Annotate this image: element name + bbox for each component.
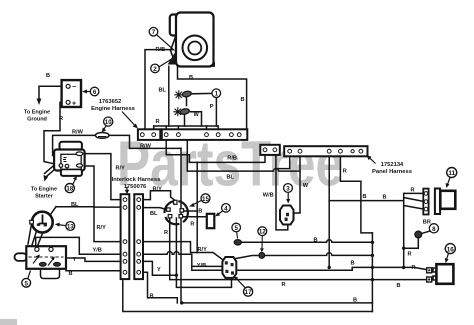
wire pto pin2 stub (275, 153, 277, 168)
interlock left strip (121, 194, 130, 279)
junction dot 329/267 (328, 266, 331, 269)
wire x403 down to R line (403, 201, 405, 268)
svg-text:R: R (411, 188, 415, 194)
engine left edge (171, 36, 177, 65)
engine harness small strip (138, 129, 160, 140)
svg-text:15: 15 (202, 196, 209, 203)
svg-text:BL: BL (150, 211, 158, 217)
svg-text:R: R (156, 119, 160, 125)
spark plug 1 boot (182, 90, 192, 97)
item 6 arrow (86, 91, 91, 93)
wire gauge BL horizontal (56, 206, 94, 208)
ground arrowhead (37, 99, 42, 106)
item 12 callout circle (258, 227, 267, 236)
wire B regulator to ground (39, 86, 66, 99)
svg-text:B: B (198, 209, 202, 215)
svg-text:To Engine: To Engine (24, 110, 50, 116)
svg-text:B: B (363, 194, 367, 200)
svg-text:16: 16 (447, 246, 455, 253)
engine flywheel inner (188, 42, 201, 55)
svg-text:6: 6 (93, 89, 97, 96)
engine harness arrow (122, 112, 135, 126)
regulator minus terminal (66, 84, 70, 88)
item 4 callout circle (222, 204, 231, 213)
svg-text:R: R (282, 282, 286, 288)
wire Y/B interlock pin4R to octagon left (143, 252, 236, 271)
svg-text:8: 8 (432, 226, 436, 233)
svg-text:B: B (150, 294, 154, 300)
svg-text:+: + (72, 100, 76, 107)
wire B key switch right pin (184, 210, 198, 212)
item 13 callout circle (66, 222, 75, 231)
pto small strip pins (263, 148, 277, 152)
panel harness strip (284, 146, 367, 156)
wire B interlock pin6R down and right (143, 272, 177, 303)
svg-text:R/B: R/B (156, 47, 166, 53)
svg-text:B: B (241, 97, 245, 103)
junction dot 372/255 (371, 254, 374, 257)
solenoid terminal 3 oval (77, 164, 83, 167)
pto small strip (260, 145, 280, 155)
key switch left pin (167, 208, 171, 211)
wire spark plug1 to item1 (191, 92, 212, 94)
engine bottom-right foot (212, 63, 215, 66)
wire vertical from R/B line down through switch area (196, 162, 198, 252)
item 3 callout circle (284, 184, 293, 193)
solenoid oval terminal (76, 152, 83, 156)
svg-text:R: R (164, 230, 168, 236)
wire R/B from engine strip pin1 to small strip (166, 140, 265, 162)
svg-text:1763652: 1763652 (99, 99, 122, 105)
item 17 callout circle (244, 287, 253, 296)
item 5b pointer (237, 232, 238, 239)
wire bus above engine strip (154, 125, 219, 127)
svg-text:13: 13 (67, 224, 74, 231)
svg-text:BR: BR (423, 220, 431, 226)
svg-text:W: W (303, 183, 309, 189)
comp3 pins (286, 213, 289, 216)
solenoid terminal 2 (65, 164, 69, 168)
svg-text:−: − (72, 84, 76, 91)
item 8 small circle component (415, 231, 422, 238)
small circle on item12 line (259, 253, 265, 259)
svg-text:Interlock Harness: Interlock Harness (112, 177, 161, 183)
item 2 pointer (159, 59, 172, 67)
item 16 arrow (447, 253, 449, 259)
switch5 plunger (15, 253, 28, 261)
svg-text:Panel Harness: Panel Harness (372, 169, 412, 175)
spark plug 2 boot (180, 108, 190, 115)
solenoid bottom cap (61, 169, 82, 176)
engine harness main strip (162, 129, 248, 140)
solenoid inner box (61, 154, 81, 169)
item 10 arrow (104, 126, 107, 130)
svg-text:To Engine: To Engine (31, 187, 57, 193)
item 17 pointer (236, 278, 245, 288)
item 11 arrow (448, 177, 451, 184)
interlock right pins (137, 198, 141, 274)
svg-text:18: 18 (66, 186, 73, 193)
svg-text:B: B (189, 75, 193, 81)
item 1 callout circle (212, 89, 221, 98)
svg-text:Engine Harness: Engine Harness (91, 106, 135, 112)
junction dot 372/242 (371, 241, 374, 244)
key switch right pin (180, 209, 184, 212)
wire switch5 U loop (41, 267, 60, 279)
comp3 octagon connector (280, 206, 294, 225)
item 18 pointer (73, 179, 76, 185)
svg-text:R: R (190, 222, 194, 228)
wire R/Y interlock pin3R to octagon (143, 242, 223, 260)
wire B panel pin 329 down (328, 156, 330, 267)
svg-text:B: B (383, 195, 387, 201)
item 11 callout circle (447, 168, 457, 178)
wire P down from item1 to bus (215, 98, 217, 126)
wire B branch to comp11 feed (329, 200, 404, 202)
svg-text:1750076: 1750076 (124, 184, 147, 190)
wire comp11 pin2 feed (404, 198, 425, 202)
svg-text:BL: BL (227, 175, 235, 181)
svg-text:Y/B: Y/B (93, 248, 102, 254)
gauge left tab (30, 220, 34, 224)
svg-text:2: 2 (153, 66, 157, 73)
svg-text:R: R (59, 116, 63, 122)
svg-text:12: 12 (259, 229, 266, 236)
switch5 dashed line (29, 256, 64, 258)
item 7 pointer (157, 35, 175, 51)
item 13 arrow (59, 225, 66, 226)
wire key switch bottom down to octagon bottom (176, 218, 231, 287)
wire from panel pin 340 R step down (340, 156, 372, 233)
wire W from panel pin2 (294, 156, 301, 213)
svg-text:3: 3 (286, 186, 290, 193)
junction dot 372/279 (371, 278, 374, 281)
svg-text:10: 10 (105, 119, 112, 126)
svg-text:Y: Y (73, 257, 77, 263)
wire gauge to switch diagonal 2 (37, 227, 45, 248)
wire plug1 boot down (186, 98, 188, 106)
item 16 callout circle (445, 244, 455, 254)
wire item12 line y255 (236, 253, 372, 259)
engine carb block (170, 15, 188, 36)
wire item8 link (422, 231, 431, 234)
item 5 callout circle (22, 278, 31, 287)
solenoid terminal 1 (59, 164, 63, 168)
junction dot 176/275 (175, 274, 178, 277)
wire solenoid upper R/Y down to interlock pin1 (85, 154, 121, 200)
comp16 left notch top (433, 268, 436, 272)
solenoid coil marks (63, 158, 67, 162)
interlock right strip (134, 194, 143, 279)
comp11 bracket (435, 189, 440, 215)
wire bus stub pin4 (217, 126, 219, 131)
wire bus down into small strip pin2 (153, 126, 155, 131)
wire Y interlock pin5R jog (143, 261, 176, 275)
wire switch5 Y (66, 258, 121, 261)
wire interlock pin2 stub (94, 206, 121, 208)
svg-text:1: 1 (215, 91, 219, 98)
item 15 pointer (192, 200, 202, 205)
key switch top pin (174, 200, 177, 204)
wire B line y242 with oval connector (235, 240, 373, 243)
wire R/Y interlock pin1R to key switch top (143, 191, 175, 201)
svg-text:R/W: R/W (72, 130, 84, 136)
wire switch5 B to pin6L (66, 270, 121, 272)
wire comp11 pin3 feed (404, 206, 425, 210)
svg-text:Starter: Starter (35, 193, 54, 199)
wire long vertical through key switch br pin to bottom line (181, 148, 372, 303)
wire interlock left strip bottom long line (123, 279, 373, 311)
junction dot 403/270 (402, 266, 405, 269)
svg-text:R: R (343, 169, 347, 175)
svg-text:R/Y: R/Y (198, 247, 208, 253)
switch5 top terminal 2 (49, 247, 53, 251)
switch5 top terminal 1 (35, 247, 39, 251)
octagon pins (225, 261, 228, 264)
wire engine bottom B to right (178, 66, 247, 129)
item 10 callout circle (104, 117, 113, 126)
item 6 callout circle (90, 87, 99, 96)
svg-text:Y: Y (157, 267, 161, 273)
key switch bl pin (168, 215, 172, 218)
item 5 pointer (28, 271, 31, 279)
svg-text:BL: BL (71, 202, 79, 208)
svg-text:R: R (408, 252, 412, 258)
comp4 rectangle (207, 214, 215, 228)
spark plug 1 star (174, 90, 183, 99)
gauge bottom terminals (37, 224, 40, 226)
interlock left pins (123, 198, 127, 274)
svg-text:R/Y: R/Y (153, 187, 163, 193)
svg-text:W/B: W/B (263, 192, 274, 198)
svg-text:R/Y: R/Y (116, 166, 126, 172)
svg-text:5: 5 (234, 225, 238, 232)
svg-text:R/B: R/B (227, 155, 237, 161)
svg-text:B: B (69, 271, 73, 277)
wire bus stub pin2 (177, 126, 179, 131)
engine harness small strip pins (140, 133, 155, 137)
wire gauge to switch diagonal 1 (32, 227, 39, 247)
svg-text:4: 4 (224, 205, 228, 212)
item 8 callout circle (429, 224, 438, 233)
svg-text:P: P (210, 104, 214, 110)
wire to engine starter diagonal (47, 167, 59, 177)
item 15 callout circle (201, 194, 210, 203)
switch5 inner arrow (48, 259, 54, 266)
interlock harness arrow (126, 187, 128, 192)
svg-text:Ground: Ground (27, 116, 47, 122)
svg-text:R: R (412, 265, 416, 271)
svg-text:B: B (397, 283, 401, 289)
comp11 3pin bar (423, 189, 428, 215)
key switch br pin (179, 215, 183, 218)
wire BL interlock pin2R to key switch left (143, 208, 167, 210)
wire engine left R/B (145, 50, 172, 130)
watermark corner remnant (0, 319, 17, 325)
wire BL long to small strip pin2 (187, 140, 300, 171)
solenoid top cap (60, 142, 82, 150)
wire engine BL down (168, 66, 170, 126)
svg-text:B: B (351, 261, 355, 267)
wire gauge BL stub from gauge (51, 207, 57, 215)
item 3 pointer (287, 193, 289, 200)
svg-text:BL: BL (159, 88, 167, 94)
comp16 left notch bottom (433, 276, 436, 280)
wire comp11 pin1 feed (404, 193, 425, 200)
wire gauge left tab down (28, 224, 32, 244)
svg-text:17: 17 (245, 289, 252, 296)
svg-text:B: B (314, 238, 318, 244)
svg-text:R/W: R/W (140, 144, 152, 150)
key switch dashed circle item15 (165, 201, 188, 224)
wire Y/B branch to octagon left pin (192, 265, 223, 267)
wire bus stub pin3 (206, 126, 208, 131)
panel harness arrow (370, 158, 376, 164)
engine body (176, 13, 214, 67)
comp16 square (436, 264, 453, 284)
wire bus stub pin1 (165, 126, 167, 131)
item 12 arrow (261, 236, 263, 250)
item 4 arrow (218, 211, 223, 214)
regulator plus terminal (66, 100, 70, 104)
spark plug 2 star (173, 107, 182, 116)
wire R regulator plus to solenoid (44, 102, 66, 165)
junction dot 372/270 (371, 266, 374, 269)
svg-text:B: B (46, 73, 50, 79)
wire switch5 loop top Y/B (36, 237, 121, 254)
wire key switch bl pin down long line to comp16 t2 (170, 218, 427, 280)
comp16 terminal square 1 (427, 268, 432, 273)
engine bottom-left connector triangle (169, 53, 176, 65)
wire octagon right to comp16 t1 with up step (236, 267, 428, 270)
svg-text:11: 11 (448, 170, 455, 177)
regulator box item6 (62, 80, 81, 107)
svg-text:5: 5 (24, 280, 28, 287)
wire R/W oval line (53, 135, 181, 155)
switch5 body (26, 246, 66, 269)
item 7 callout circle (149, 27, 158, 36)
switch5 lower terminal 2 (54, 262, 61, 266)
engine harness main strip pins (164, 133, 241, 137)
item 5b callout circle (232, 223, 241, 232)
junction dot 181/302 (180, 301, 183, 304)
wire item8 drop (404, 238, 419, 249)
gauge item13 circle (32, 212, 53, 233)
svg-text:7: 7 (152, 29, 156, 36)
gauge inner T (39, 215, 48, 224)
solenoid body (54, 150, 85, 171)
comp16 terminal square 2 (427, 277, 432, 282)
item 18 callout circle (65, 184, 74, 193)
switch5 lower terminal 1 (39, 262, 46, 266)
wire right vertical x372 (371, 233, 373, 312)
wire plug2 W to bus (190, 112, 202, 126)
engine flywheel outer (183, 36, 208, 61)
svg-text:1752134: 1752134 (381, 162, 404, 168)
starter arrowhead (43, 175, 48, 182)
svg-text:B: B (353, 298, 357, 304)
switch5 inner arrow 2 (33, 257, 39, 264)
svg-text:W: W (194, 112, 200, 118)
wire W/B from panel pin1 (276, 156, 290, 230)
panel harness strip pins (288, 149, 363, 153)
wire plug2 boot down (184, 115, 186, 127)
wire solenoid lower to interlock pin2 and gauge BL to pin3 (85, 166, 121, 242)
inline oval on B line (234, 240, 241, 245)
octagon connector item17 (222, 257, 236, 278)
svg-text:R/Y: R/Y (97, 225, 107, 231)
item 2 callout circle (151, 64, 160, 73)
junction dot 403/248 (402, 247, 405, 250)
svg-text:Y/B: Y/B (197, 263, 206, 269)
comp11 pins (424, 192, 428, 211)
wire R key switch br to comp4 (183, 216, 207, 218)
inline oval connector R/W (95, 133, 109, 139)
comp11 square (440, 191, 455, 209)
